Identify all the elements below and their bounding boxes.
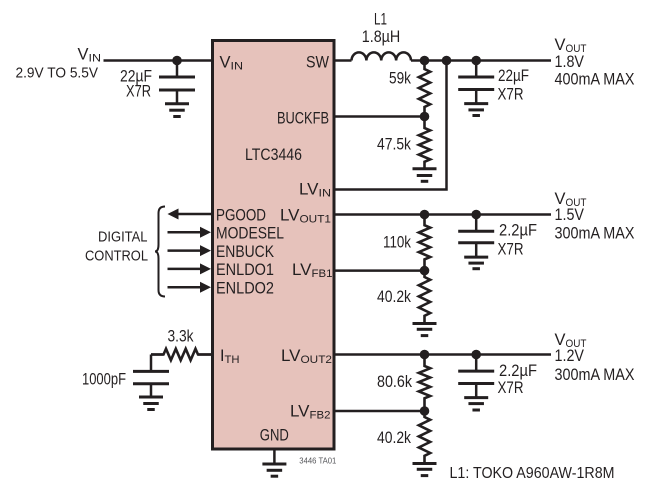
pin label PGOOD — [216, 205, 266, 224]
svg-text:PGOOD: PGOOD — [216, 205, 266, 224]
pin label LVIN — [299, 180, 331, 200]
label 22uF C2 — [498, 67, 529, 85]
label X7R C2 — [498, 86, 524, 104]
junction dot LVFB2 — [420, 406, 430, 416]
svg-text:OUT2: OUT2 — [301, 354, 333, 366]
svg-text:SW: SW — [306, 52, 329, 71]
svg-text:IN: IN — [319, 188, 332, 200]
label 59k — [389, 70, 412, 88]
svg-text:LV: LV — [292, 260, 312, 279]
label 300mA MAX C3 — [555, 225, 635, 243]
arrow MODESEL input — [168, 227, 212, 238]
svg-text:2.2µF: 2.2µF — [499, 362, 537, 380]
label VOUT 1.8V — [555, 36, 587, 55]
svg-text:L1: L1 — [374, 11, 387, 29]
svg-text:OUT1: OUT1 — [300, 213, 332, 225]
svg-text:400mA MAX: 400mA MAX — [555, 71, 635, 89]
capacitor C3 2.2uF — [458, 215, 494, 243]
svg-text:40.2k: 40.2k — [377, 429, 412, 447]
svg-text:ENLDO2: ENLDO2 — [216, 279, 274, 298]
ground under R2 — [413, 169, 437, 182]
svg-text:TH: TH — [225, 354, 240, 366]
wire LVOUT2 — [336, 353, 552, 356]
svg-text:ENLDO1: ENLDO1 — [216, 260, 274, 279]
pin label LVFB2 — [290, 402, 331, 422]
label CONTROL — [85, 247, 148, 264]
wire LVFB1 — [336, 269, 425, 272]
label 2.9V TO 5.5V — [16, 64, 99, 81]
svg-text:1.8V: 1.8V — [555, 53, 585, 71]
label 3.3k — [168, 328, 195, 346]
svg-text:MODESEL: MODESEL — [216, 224, 284, 243]
ground under R7 — [413, 464, 437, 476]
wire ITH — [151, 353, 211, 356]
arrow ENBUCK input — [168, 245, 212, 256]
pin label GND — [260, 426, 289, 445]
svg-text:X7R: X7R — [498, 86, 524, 104]
junction dot LVOUT2/C4 — [471, 350, 481, 360]
wire BUCKFB — [336, 115, 425, 118]
junction dot LVOUT1/R3 — [420, 210, 430, 220]
label X7R C4 — [498, 379, 524, 397]
inductor L1 1.8uH — [352, 52, 412, 60]
junction dot BUCKFB — [420, 112, 430, 122]
svg-text:1000pF: 1000pF — [82, 371, 126, 389]
junction dot LVFB1 — [420, 266, 430, 276]
svg-text:110k: 110k — [383, 234, 412, 252]
ground under C4 — [464, 384, 488, 411]
svg-text:FB2: FB2 — [310, 410, 331, 422]
ground under C5 — [139, 384, 163, 410]
svg-text:V: V — [78, 46, 89, 64]
pin label BUCKFB — [277, 108, 329, 127]
note 3446 TA01 — [299, 457, 337, 466]
brace digital control — [155, 207, 165, 297]
resistor R4 40.2k — [419, 271, 430, 324]
label VOUT 1.5V — [555, 190, 587, 209]
junction dot SW/R1 — [420, 56, 430, 66]
svg-text:GND: GND — [260, 426, 289, 445]
pin label ENLDO1 — [216, 260, 274, 279]
label 1.2V — [555, 347, 585, 365]
wire L1 to VOUT 1.8V — [411, 59, 551, 62]
junction dot SW/LVIN — [442, 56, 452, 66]
junction dot LVOUT1/C3 — [471, 210, 481, 220]
ground under R4 — [413, 324, 437, 336]
arrow ENLDO1 input — [168, 263, 212, 274]
arrow PGOOD output — [168, 209, 212, 220]
svg-text:CONTROL: CONTROL — [85, 247, 148, 264]
pin label ENLDO2 — [216, 279, 274, 298]
svg-text:1.8µH: 1.8µH — [362, 28, 401, 46]
svg-text:X7R: X7R — [498, 241, 524, 259]
svg-text:LV: LV — [280, 205, 300, 224]
label 80.6k — [377, 373, 413, 391]
svg-text:FB1: FB1 — [312, 268, 333, 280]
ground under GND pin — [262, 449, 286, 476]
resistor R5 3.3k — [151, 349, 211, 360]
svg-text:IN: IN — [89, 53, 102, 65]
svg-text:80.6k: 80.6k — [377, 373, 413, 391]
wire LVIN drop — [336, 61, 447, 190]
wire LVOUT1 — [336, 213, 552, 216]
svg-text:DIGITAL: DIGITAL — [98, 229, 148, 246]
junction dot LVOUT2/R6 — [420, 350, 430, 360]
IC name LTC3446 — [245, 145, 302, 164]
note L1 TOKO part number — [450, 465, 615, 482]
svg-text:V: V — [220, 52, 232, 71]
ground under C3 — [464, 243, 488, 269]
regulator IC U1 LTC3446 body — [213, 41, 335, 450]
label 47.5k — [377, 135, 412, 153]
svg-text:BUCKFB: BUCKFB — [277, 108, 329, 127]
label 1000pF — [82, 371, 126, 389]
pin label LVOUT1 — [280, 205, 331, 225]
label L1 — [374, 11, 387, 29]
label 40.2k R7 — [377, 429, 412, 447]
resistor R3 110k — [419, 215, 430, 271]
pin label ENBUCK — [216, 242, 275, 261]
svg-text:40.2k: 40.2k — [377, 288, 412, 306]
svg-text:LV: LV — [281, 346, 301, 365]
label 2.2uF C4 — [499, 362, 537, 380]
ground under C1 — [165, 90, 189, 117]
svg-text:LV: LV — [290, 402, 310, 421]
capacitor C5 1000pF — [133, 355, 169, 384]
pin label VIN — [220, 52, 244, 72]
label 110k — [383, 234, 412, 252]
wire LVFB2 — [336, 410, 425, 413]
svg-text:X7R: X7R — [498, 379, 524, 397]
label 2.2uF C3 — [499, 222, 537, 240]
capacitor C4 2.2uF — [458, 355, 494, 384]
node VIN input wire — [104, 59, 212, 62]
resistor R1 59k — [419, 61, 430, 117]
svg-text:1.2V: 1.2V — [555, 347, 585, 365]
svg-text:3.3k: 3.3k — [168, 328, 195, 346]
svg-text:59k: 59k — [389, 70, 412, 88]
pin label SW — [306, 52, 329, 71]
pin label ITH — [220, 346, 240, 366]
svg-text:LV: LV — [299, 180, 319, 199]
svg-text:300mA MAX: 300mA MAX — [555, 225, 635, 243]
label 22uF C1 — [120, 67, 152, 85]
svg-text:2.9V TO 5.5V: 2.9V TO 5.5V — [16, 64, 99, 81]
pin label LVFB1 — [292, 260, 333, 280]
svg-text:LTC3446: LTC3446 — [245, 145, 302, 164]
svg-text:22µF: 22µF — [498, 67, 529, 85]
label 1.5V — [555, 206, 585, 224]
ground under C2 — [464, 90, 488, 116]
capacitor C1 22uF input — [159, 61, 195, 91]
resistor R2 47.5k — [419, 117, 430, 169]
pin label LVOUT2 — [281, 346, 332, 366]
label VOUT 1.2V — [555, 331, 587, 350]
svg-text:2.2µF: 2.2µF — [499, 222, 537, 240]
label 1.8V — [555, 53, 585, 71]
pin label MODESEL — [216, 224, 284, 243]
junction dot SW/C2 — [471, 56, 481, 66]
svg-text:V: V — [555, 36, 566, 54]
label 1.8uH — [362, 28, 401, 46]
capacitor C2 22uF output — [458, 61, 494, 90]
label 300mA MAX C4 — [555, 366, 635, 384]
svg-text:3446 TA01: 3446 TA01 — [299, 457, 337, 466]
label 40.2k R4 — [377, 288, 412, 306]
label X7R C3 — [498, 241, 524, 259]
svg-text:1.5V: 1.5V — [555, 206, 585, 224]
wire SW to L1 — [336, 59, 352, 62]
resistor R7 40.2k — [419, 411, 430, 464]
arrow ENLDO2 input — [168, 282, 212, 293]
svg-text:47.5k: 47.5k — [377, 135, 412, 153]
label X7R C1 — [126, 83, 151, 101]
resistor R6 80.6k — [419, 355, 430, 412]
junction dot VIN/C1 — [172, 56, 182, 66]
svg-text:ENBUCK: ENBUCK — [216, 242, 275, 261]
svg-text:300mA MAX: 300mA MAX — [555, 366, 635, 384]
svg-text:L1: TOKO A960AW-1R8M: L1: TOKO A960AW-1R8M — [450, 465, 615, 482]
label 400mA MAX — [555, 71, 635, 89]
svg-text:IN: IN — [231, 60, 244, 72]
label DIGITAL — [98, 229, 148, 246]
label VIN source — [78, 46, 102, 65]
svg-text:X7R: X7R — [126, 83, 151, 101]
